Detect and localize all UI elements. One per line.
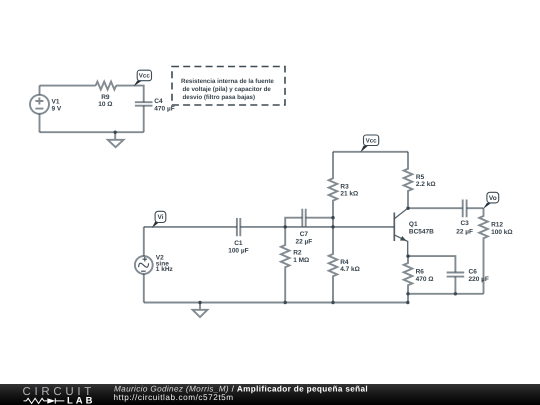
wire V1 top to R9 — [40, 85, 96, 87]
wire V2 to C1 — [144, 226, 237, 228]
svg-text:21 kΩ: 21 kΩ — [340, 190, 358, 197]
resistor R6 — [404, 256, 413, 302]
label V2 sine 1 kHz — [156, 254, 174, 273]
svg-text:R9: R9 — [101, 94, 110, 101]
svg-text:Mauricio Godinez (Morris_M) /: Mauricio Godinez (Morris_M) / Amplificad… — [114, 384, 368, 393]
junction R2 bottom — [284, 301, 287, 304]
svg-text:22 µF: 22 µF — [296, 239, 313, 246]
label C3 22 µF — [456, 220, 473, 235]
label R12 100 kΩ — [491, 222, 512, 236]
junction ground node — [198, 301, 201, 304]
junction node B — [331, 216, 334, 219]
svg-text:http://circuitlab.com/c572t5m: http://circuitlab.com/c572t5m — [114, 393, 234, 402]
wire C3 to Vo node — [467, 207, 484, 209]
wire Vcc rail top — [333, 151, 408, 153]
svg-text:R4: R4 — [340, 259, 349, 266]
ground battery circuit — [108, 132, 124, 147]
annotation text — [181, 78, 274, 101]
label Q1 BC547B — [409, 221, 434, 235]
svg-text:Vcc: Vcc — [139, 73, 151, 80]
svg-text:Vcc: Vcc — [366, 138, 378, 145]
svg-text:4.7 kΩ: 4.7 kΩ — [340, 266, 360, 273]
wire C7 to node B — [306, 217, 333, 219]
label R5 2.2 kΩ — [416, 174, 436, 188]
net flag Vcc amplifier — [360, 135, 378, 152]
capacitor C6 — [447, 273, 465, 277]
svg-text:1 MΩ: 1 MΩ — [293, 257, 309, 264]
svg-text:desvio (filtro pasa bajas): desvio (filtro pasa bajas) — [183, 94, 256, 101]
wire C6 to emitter bottom row — [454, 277, 456, 294]
label C1 100 µF — [228, 240, 248, 254]
label C4 470 µF — [154, 98, 174, 113]
svg-text:9 V: 9 V — [52, 106, 62, 113]
capacitor C1 — [237, 218, 240, 236]
label C6 220 µF — [469, 269, 489, 284]
transistor Q1 — [394, 208, 407, 256]
label R6 470 Ω — [416, 269, 434, 283]
svg-text:100 kΩ: 100 kΩ — [491, 229, 512, 236]
svg-text:BC547B: BC547B — [409, 229, 434, 236]
svg-text:C7: C7 — [300, 231, 309, 238]
resistor R4 — [329, 227, 338, 303]
wire collector to C3 — [408, 207, 463, 209]
wire node A up to C7 — [285, 218, 302, 227]
svg-text:Vo: Vo — [489, 195, 497, 202]
wire R9 to C4 — [116, 86, 144, 103]
svg-text:470 µF: 470 µF — [154, 106, 174, 113]
wire base row node A to Q1 — [285, 226, 394, 228]
label R9 10 Ω — [98, 94, 112, 108]
junction node A — [284, 225, 287, 228]
svg-text:R2: R2 — [293, 250, 302, 257]
label V1 9 V — [52, 98, 62, 112]
svg-text:C1: C1 — [234, 240, 243, 247]
svg-text:10 Ω: 10 Ω — [98, 101, 112, 108]
svg-text:C4: C4 — [154, 98, 163, 105]
net flag Vcc battery — [134, 70, 152, 86]
junction R6 rail node — [406, 301, 409, 304]
svg-text:100 µF: 100 µF — [228, 247, 248, 254]
wire emitter to C6 — [408, 256, 455, 272]
wire C1 to node A — [240, 226, 285, 228]
svg-text:de voltaje (pila) y capacitor: de voltaje (pila) y capacitor de — [183, 86, 272, 93]
svg-text:Q1: Q1 — [409, 221, 418, 228]
footer bar — [0, 384, 540, 405]
svg-text:C6: C6 — [469, 269, 478, 276]
label R2 1 MΩ — [293, 250, 309, 265]
junction emitter node — [406, 254, 409, 257]
junction R6 bottom — [406, 292, 409, 295]
resistor R3 — [329, 152, 338, 227]
junction C6 bottom — [454, 292, 457, 295]
svg-text:1 kHz: 1 kHz — [156, 266, 174, 273]
svg-text:LAB: LAB — [67, 396, 96, 405]
svg-text:220 µF: 220 µF — [469, 276, 489, 283]
svg-text:Resistencia interna de la fuen: Resistencia interna de la fuente — [181, 78, 274, 85]
capacitor C7 — [302, 209, 305, 227]
ground amplifier — [193, 303, 208, 318]
svg-text:22 µF: 22 µF — [456, 229, 473, 236]
net flag Vo — [483, 192, 499, 209]
wire C4 to bottom rail — [143, 106, 145, 132]
label R3 21 kΩ — [340, 184, 358, 198]
sine source V2 — [135, 227, 153, 303]
voltage source V1 — [30, 86, 49, 133]
svg-text:Vi: Vi — [157, 214, 163, 221]
net flag Vi — [152, 211, 166, 228]
svg-text:R6: R6 — [416, 269, 425, 276]
capacitor C3 — [463, 200, 467, 218]
annotation box — [172, 67, 285, 106]
svg-text:V1: V1 — [52, 98, 60, 105]
resistor R2 — [281, 227, 290, 303]
capacitor C4 — [135, 102, 153, 106]
label C7 22 µF — [296, 231, 313, 245]
wire ground rail — [144, 302, 408, 304]
junction node C — [331, 225, 334, 228]
junction R4 bottom — [331, 301, 334, 304]
svg-text:C3: C3 — [460, 220, 469, 227]
wire emitter bottom row — [408, 293, 484, 295]
junction battery ground node — [114, 131, 117, 134]
svg-text:470 Ω: 470 Ω — [416, 276, 434, 283]
svg-text:2.2 kΩ: 2.2 kΩ — [416, 181, 436, 188]
label R4 4.7 kΩ — [340, 259, 360, 273]
svg-text:R5: R5 — [416, 174, 425, 181]
wire battery bottom rail — [40, 131, 144, 133]
CircuitLab logo squiggle — [24, 398, 65, 403]
resistor R9 — [96, 82, 116, 90]
junction collector node — [406, 207, 409, 210]
resistor R12 — [479, 208, 488, 294]
resistor R5 — [404, 152, 413, 208]
svg-text:R12: R12 — [491, 222, 503, 229]
